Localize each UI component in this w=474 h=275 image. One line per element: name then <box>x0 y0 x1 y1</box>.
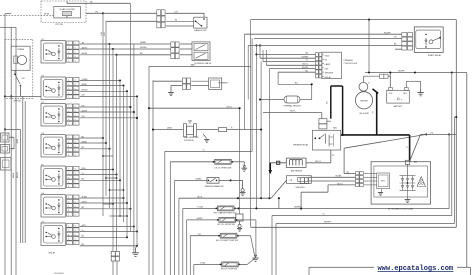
svg-text:6: 6 <box>75 215 76 217</box>
svg-text:6: 6 <box>75 182 76 184</box>
wire harness relay K1 outputs to bus <box>80 43 110 45</box>
svg-text:40/RD: 40/RD <box>82 141 88 143</box>
svg-text:6: 6 <box>75 43 76 45</box>
svg-text:BAT2: BAT2 <box>191 64 196 67</box>
svg-text:4: 4 <box>68 150 69 152</box>
svg-text:40/TN: 40/TN <box>44 14 50 16</box>
connector glow plug 2-pin <box>319 119 327 124</box>
svg-text:2: 2 <box>68 110 69 112</box>
url text background knockout <box>374 263 457 273</box>
cable bold glow loop <box>331 85 343 87</box>
wire vertical 40/BK option column <box>20 129 22 243</box>
relay K3 internals (coil and contact) <box>44 106 63 123</box>
svg-text:K7: K7 <box>42 221 44 223</box>
svg-text:40/RD: 40/RD <box>82 84 88 86</box>
wire oil temp output diagonal up to ground <box>239 263 247 265</box>
connector relay K4 pin block <box>67 135 73 139</box>
cable bold starter to battery <box>373 89 379 94</box>
relay K7 box <box>41 223 65 246</box>
connector start relay pin block <box>402 33 407 37</box>
cable bold battery feed <box>341 134 410 136</box>
svg-text:BAT.: BAT. <box>333 127 337 130</box>
svg-text:SEGMENT: SEGMENT <box>218 82 229 84</box>
svg-text:2: 2 <box>68 173 69 175</box>
start relay coil symbol <box>425 38 427 46</box>
switch E/G COOLANT TEMP SW <box>220 233 237 238</box>
svg-text:5: 5 <box>68 215 69 217</box>
wire battery NEG to ground <box>405 81 407 87</box>
svg-text:1: 1 <box>68 169 69 171</box>
wire section border right <box>455 20 457 228</box>
svg-text:6: 6 <box>75 230 76 232</box>
svg-text:5: 5 <box>68 97 69 99</box>
svg-text:E/G COOLANT TEMP SW: E/G COOLANT TEMP SW <box>216 239 238 242</box>
wire QN/WH right riser <box>448 134 450 208</box>
wire oil filter output to ground drop <box>237 219 256 221</box>
connector relay K7 pin block <box>67 224 73 228</box>
wire harness relay K6 outputs to bus <box>80 197 124 199</box>
svg-text:6: 6 <box>75 169 76 171</box>
svg-text:CRANE: CRANE <box>17 48 25 51</box>
svg-text:6: 6 <box>75 137 76 139</box>
relay K2 box <box>41 77 65 100</box>
frame next sheet border <box>309 266 471 268</box>
svg-text:RD/YL: RD/YL <box>290 111 296 113</box>
svg-text:6: 6 <box>75 56 76 58</box>
svg-text:GND: GND <box>325 55 330 57</box>
wire section border bottom <box>251 226 457 228</box>
wire RD bottom route <box>271 216 273 275</box>
wire L/S oil press output to ground <box>232 161 244 163</box>
alternator diode bridge <box>402 176 404 191</box>
svg-text:1: 1 <box>68 137 69 139</box>
connector inline on air heater lead <box>277 161 280 164</box>
connector solenoid valve pin block <box>171 42 175 47</box>
component SEGMENT box <box>209 78 222 89</box>
relay K6 internals (coil and contact) <box>44 197 63 214</box>
svg-text:PARKING BRAKE SW: PARKING BRAKE SW <box>205 185 224 188</box>
crane motor circle <box>17 55 26 64</box>
ground switch collector common <box>255 257 257 259</box>
ground parking brake switch <box>241 189 244 192</box>
switch H/O CHARGE PRESS SW <box>218 206 235 211</box>
svg-text:YL: YL <box>82 173 84 175</box>
wire air heater to chassis arrow <box>270 162 286 164</box>
svg-text:H/O OIL TEMP SW: H/O OIL TEMP SW <box>221 269 237 271</box>
wire handle connector to switch <box>166 12 204 14</box>
svg-text:HANDLE SW: HANDLE SW <box>194 29 206 32</box>
svg-text:2: 2 <box>68 84 69 86</box>
ground L/S oil press switch <box>243 166 245 168</box>
wire start relay feed 4 <box>395 48 402 50</box>
component crane box <box>11 46 30 70</box>
relay K1 box <box>41 41 65 64</box>
svg-text:6: 6 <box>75 61 76 63</box>
svg-text:2: 2 <box>68 47 69 49</box>
relay K4 box <box>41 135 65 158</box>
svg-text:3: 3 <box>68 88 69 90</box>
svg-text:6: 6 <box>75 106 76 108</box>
wire segment feed from BAT2 drop <box>153 80 182 82</box>
svg-text:OPTION: OPTION <box>55 24 63 26</box>
svg-text:6: 6 <box>75 234 76 236</box>
svg-text:6: 6 <box>75 146 76 148</box>
wire lower-left lateral ties <box>103 155 113 157</box>
component ALTERNATOR outer box <box>371 162 430 204</box>
wire controller pin feeds <box>256 53 315 55</box>
svg-text:6: 6 <box>75 52 76 54</box>
svg-text:RD/YL: RD/YL <box>315 161 321 163</box>
svg-text:6: 6 <box>75 110 76 112</box>
svg-text:K5: K5 <box>42 164 44 166</box>
switch option OFF box <box>1 145 10 154</box>
svg-text:K4: K4 <box>42 133 44 135</box>
svg-text:6: 6 <box>75 206 76 208</box>
wire BU net corner <box>277 72 279 84</box>
svg-text:4: 4 <box>68 182 69 184</box>
svg-text:6: 6 <box>75 80 76 82</box>
svg-text:RD/WH: RD/WH <box>302 56 309 58</box>
wire alternator pin1 riser <box>344 173 355 175</box>
svg-text:SENDER: SENDER <box>325 73 334 75</box>
svg-text:K6: K6 <box>42 193 44 195</box>
svg-text:2: 2 <box>68 230 69 232</box>
wire harness relay K4 outputs to bus <box>80 137 103 139</box>
svg-text:RD/WH: RD/WH <box>398 71 405 73</box>
svg-text:6: 6 <box>75 226 76 228</box>
svg-text:QN/B: QN/B <box>167 128 172 130</box>
svg-text:40/TL: 40/TL <box>82 225 87 227</box>
wire harness switch feeds with corner drops <box>164 151 166 275</box>
svg-text:RD/WH: RD/WH <box>384 32 391 34</box>
svg-text:6: 6 <box>75 124 76 126</box>
svg-text:ALTERNATOR (12V-45A): ALTERNATOR (12V-45A) <box>388 207 413 210</box>
switch H/O OIL TEMP SW <box>222 262 239 267</box>
ground chassis arrow bold <box>269 163 271 171</box>
svg-text:RELAY: RELAY <box>325 76 332 79</box>
wire 2A from cigar lighter top <box>66 1 68 3</box>
alternator connector pin block <box>356 172 360 175</box>
wire coolant temp output <box>238 235 251 237</box>
connector relay K5 pin block <box>67 167 73 171</box>
wire cigar lighter feed TN <box>86 12 103 14</box>
svg-text:5: 5 <box>68 155 69 157</box>
alternator stator delta winding <box>417 177 426 187</box>
svg-text:4: 4 <box>68 239 69 241</box>
cigar lighter element symbol <box>63 12 72 16</box>
svg-text:6: 6 <box>75 239 76 241</box>
component PREHEAT CONTROLLER box <box>322 52 342 78</box>
option dashed box CRANE <box>5 39 33 98</box>
wire relay K1 row extensions crossing bus <box>80 43 135 45</box>
relay K2 internals (coil and contact) <box>44 80 63 97</box>
svg-text:H/O CHARGE PRESS SW: H/O CHARGE PRESS SW <box>214 212 237 215</box>
wire BAT2 drop to bottom <box>148 67 150 275</box>
wire fuel solenoid feed QN/BK <box>153 129 184 131</box>
svg-text:6: 6 <box>75 141 76 143</box>
svg-text:40/BK: 40/BK <box>13 172 15 178</box>
svg-text:3: 3 <box>68 177 69 179</box>
relay K7 internals (coil and contact) <box>44 226 63 243</box>
svg-text:6: 6 <box>75 97 76 99</box>
svg-text:RELAY: RELAY <box>49 252 56 255</box>
svg-text:POS: POS <box>389 93 392 95</box>
svg-text:QN/RD: QN/RD <box>196 218 203 220</box>
wire RD/TL long <box>149 107 240 109</box>
svg-text:TL/RD: TL/RD <box>82 196 88 198</box>
svg-text:OPTION: OPTION <box>13 101 21 103</box>
wire start relay feed BK <box>248 44 402 46</box>
svg-text:6: 6 <box>75 243 76 245</box>
wire RD diagonal from alternator BAT <box>410 134 421 161</box>
relay K4 internals (coil and contact) <box>44 137 63 154</box>
switch option ON box <box>1 133 10 142</box>
wire fuel solenoid case to ground <box>203 134 207 139</box>
component cigar lighter box <box>54 7 81 18</box>
wire vertical bundle center-right <box>239 108 241 214</box>
wire solenoid valve feeds from relay K1 <box>110 43 171 45</box>
svg-text:6: 6 <box>75 150 76 152</box>
svg-text:4: 4 <box>68 93 69 95</box>
wire crane to relay K2 <box>20 86 22 97</box>
cable bold drop to alternator BAT node <box>409 135 411 161</box>
svg-text:4: 4 <box>68 210 69 212</box>
connector inline side resistor output <box>300 178 304 184</box>
svg-text:SOLENOID VALVE: SOLENOID VALVE <box>194 62 212 65</box>
wire vertical pair 40/BK 40/QN <box>22 96 24 243</box>
node junction dots on left bus <box>4 95 6 97</box>
wire relay K2 fourth output QN <box>80 95 137 97</box>
svg-text:RD/QN: RD/QN <box>302 67 309 69</box>
switch crane ON <box>14 70 16 74</box>
svg-text:6: 6 <box>75 155 76 157</box>
svg-text:3: 3 <box>68 115 69 117</box>
wire RD sense diagonal to pin1 <box>344 134 426 148</box>
svg-text:RD/WH: RD/WH <box>140 47 147 49</box>
svg-text:CIGAR LIGHTER: CIGAR LIGHTER <box>59 8 75 11</box>
svg-text:1: 1 <box>68 106 69 108</box>
wire RD to right border <box>421 133 457 135</box>
svg-text:3: 3 <box>68 234 69 236</box>
wire harness relay K3 outputs to bus <box>80 106 131 108</box>
wire RD/WH bottom route <box>275 223 277 275</box>
switch H/O OIL FILTER SW <box>219 218 236 223</box>
wire BAT2 net <box>149 66 251 68</box>
wire sheet right edge <box>466 73 468 268</box>
svg-text:K1: K1 <box>42 39 44 41</box>
node junction on top border <box>368 19 370 21</box>
wire battery positive riser <box>368 20 370 73</box>
relay K6 box <box>41 195 65 218</box>
svg-text:LAMP: LAMP <box>325 63 331 66</box>
svg-text:H/O OIL FILTER SW: H/O OIL FILTER SW <box>217 224 235 226</box>
svg-text:QN/RD: QN/RD <box>196 179 203 181</box>
component small box on x239.6 drop <box>236 214 243 221</box>
svg-text:40/QN: 40/QN <box>17 172 19 178</box>
svg-text:BK/QN: BK/QN <box>82 90 89 92</box>
svg-text:6: 6 <box>75 47 76 49</box>
svg-text:1: 1 <box>68 226 69 228</box>
connector inline pair bottom <box>111 251 115 256</box>
svg-text:YL/QN: YL/QN <box>197 207 203 209</box>
alternator BAT terminal <box>407 164 409 176</box>
wire stub top-left corner <box>5 13 11 15</box>
svg-text:40/TN: 40/TN <box>82 47 88 49</box>
svg-text:6: 6 <box>75 88 76 90</box>
wire handle switch feed 2 <box>106 20 157 22</box>
svg-text:2: 2 <box>68 201 69 203</box>
switch L/S OIL PRESS SW <box>215 159 232 164</box>
svg-text:QN/RD: QN/RD <box>82 79 89 81</box>
svg-text:PREHEAT RELAY: PREHEAT RELAY <box>293 144 309 147</box>
wire segment to ground <box>171 85 182 87</box>
wire vertical bus 40/BK left <box>10 27 12 275</box>
wire charge press continues right QN/WH <box>235 207 279 209</box>
wire starter to connector <box>362 76 364 82</box>
wire RD/YL long net with junctions <box>237 197 239 199</box>
component fuel shut-off solenoid <box>184 124 187 137</box>
component starter motor <box>359 82 368 91</box>
resistor R fuel circuit <box>197 129 219 131</box>
component AIR HEATER box with coil <box>286 158 306 167</box>
svg-text:RD/YL: RD/YL <box>302 64 308 66</box>
connector relay K3 pin block <box>67 104 73 108</box>
connector relay K1 pin block <box>67 41 73 45</box>
ground alternator regulator <box>381 189 383 193</box>
svg-text:IGN: IGN <box>325 68 329 70</box>
ground alternator bridge <box>407 191 409 200</box>
alternator inner box <box>374 166 428 197</box>
alternator regulator REG box <box>377 173 390 189</box>
start relay contact <box>429 40 433 44</box>
component side resistor box <box>287 176 312 184</box>
svg-text:QN/BK: QN/BK <box>140 42 147 44</box>
node RD/WH drop junction <box>451 71 453 73</box>
node junctions on center bundle <box>255 44 257 46</box>
svg-text:4: 4 <box>68 119 69 121</box>
relay K3 box <box>41 104 65 127</box>
svg-text:SOLENOID: SOLENOID <box>184 140 194 142</box>
wire side resistor outputs to alternator connector <box>309 176 356 178</box>
node YL to riser x252.1 <box>251 38 253 151</box>
svg-text:YL: YL <box>82 230 84 232</box>
wire air heater RD/YL <box>330 150 332 163</box>
svg-text:1: 1 <box>68 197 69 199</box>
svg-text:W: W <box>407 146 409 148</box>
svg-text:5: 5 <box>68 243 69 245</box>
wire start relay feed RD/WH <box>244 33 401 35</box>
wire dashed 40/TN to cigar lighter <box>0 15 54 17</box>
wire QN/WH line <box>279 208 449 210</box>
svg-text:6: 6 <box>75 115 76 117</box>
wire handle switch feed TN <box>103 12 157 14</box>
svg-text:QN/TL: QN/TL <box>82 201 88 203</box>
ground bottom bus <box>136 246 138 248</box>
connector relay K2 pin block <box>67 78 73 82</box>
component lamp box lower-left <box>1 158 12 171</box>
svg-text:5: 5 <box>68 124 69 126</box>
svg-text:6: 6 <box>75 93 76 95</box>
svg-text:AIR HEATER: AIR HEATER <box>291 169 303 172</box>
svg-text:K3: K3 <box>42 102 44 104</box>
relay K1 internals (coil and contact) <box>44 43 63 60</box>
connector segment pin block <box>182 78 186 83</box>
wire second long vertical <box>152 80 154 275</box>
ground below small box <box>239 221 241 224</box>
option dashed box CIGAR LIGHTER <box>41 1 86 23</box>
wire harness relay K7 outputs to bus <box>80 226 134 228</box>
wire parking brake to ground <box>230 179 232 181</box>
svg-text:2: 2 <box>68 141 69 143</box>
svg-text:RD/WH: RD/WH <box>324 222 331 224</box>
svg-text:4: 4 <box>68 56 69 58</box>
svg-text:6: 6 <box>75 119 76 121</box>
svg-text:K2: K2 <box>42 75 44 77</box>
component thermal sensor <box>284 96 300 103</box>
wire harness relay K2 outputs to bus <box>80 80 120 82</box>
svg-text:YL: YL <box>203 150 205 152</box>
wire thermal sensor leads <box>259 99 284 101</box>
svg-text:3: 3 <box>68 206 69 208</box>
ground stub near thermal sensor <box>306 100 308 105</box>
connector handle switch pin block <box>157 10 161 16</box>
svg-text:6: 6 <box>75 201 76 203</box>
svg-text:FUEL SHUT-OFF: FUEL SHUT-OFF <box>184 137 200 139</box>
switch PARKING BRAKE SW <box>207 178 219 184</box>
svg-text:1: 1 <box>68 43 69 45</box>
component BATTERY <box>387 90 410 103</box>
wire alternator pin4 route <box>328 184 356 186</box>
wire alternator connector to regulator <box>364 173 377 175</box>
connector relay K6 pin block <box>67 195 73 199</box>
wire RD/YL diagonal fuse to side resistor <box>271 180 286 198</box>
wire RD/YL to glow connector <box>263 112 322 114</box>
wire start relay feed TN <box>254 37 402 39</box>
svg-text:(M+-4.2kW): (M+-4.2kW) <box>359 113 369 115</box>
wire vertical bus 40/QN left <box>15 27 17 275</box>
svg-text:40/QN: 40/QN <box>82 110 88 112</box>
svg-text:THERMAL SENSOR: THERMAL SENSOR <box>283 105 301 108</box>
svg-text:PREHEAT: PREHEAT <box>344 59 354 62</box>
ground battery negative <box>420 89 422 93</box>
wire RD/WH long to right edge <box>365 72 467 74</box>
wire harness relay K5 outputs to bus <box>80 169 113 171</box>
ground fuel solenoid <box>204 139 209 141</box>
svg-text:L/S OIL PRESS SW: L/S OIL PRESS SW <box>214 168 231 170</box>
svg-text:RD/BK: RD/BK <box>336 176 343 178</box>
svg-text:STARTER: STARTER <box>360 100 369 103</box>
wire solenoid connector to valve <box>180 43 192 45</box>
svg-text:START RELAY: START RELAY <box>428 54 442 57</box>
component SOLENOID VALVE box <box>192 42 210 61</box>
ground segment <box>168 92 174 94</box>
svg-text:5: 5 <box>68 61 69 63</box>
svg-text:BATTERY: BATTERY <box>394 105 403 108</box>
svg-text:6: 6 <box>75 210 76 212</box>
svg-text:RD/TL: RD/TL <box>197 196 202 198</box>
svg-text:CONTROLLER: CONTROLLER <box>344 63 358 65</box>
wire bus drops below inline connector <box>112 261 114 275</box>
svg-text:3: 3 <box>68 146 69 148</box>
component HANDLE SW box <box>194 17 207 28</box>
svg-text:YL: YL <box>306 60 308 62</box>
wire option switches to 40/BK bus <box>4 128 21 130</box>
connector preheat controller pin column <box>316 53 319 57</box>
relay PREHEAT RELAY box <box>312 130 340 150</box>
svg-text:6: 6 <box>75 186 76 188</box>
svg-text:SIDE-REG: SIDE-REG <box>296 187 306 189</box>
relay K5 box <box>41 166 65 189</box>
